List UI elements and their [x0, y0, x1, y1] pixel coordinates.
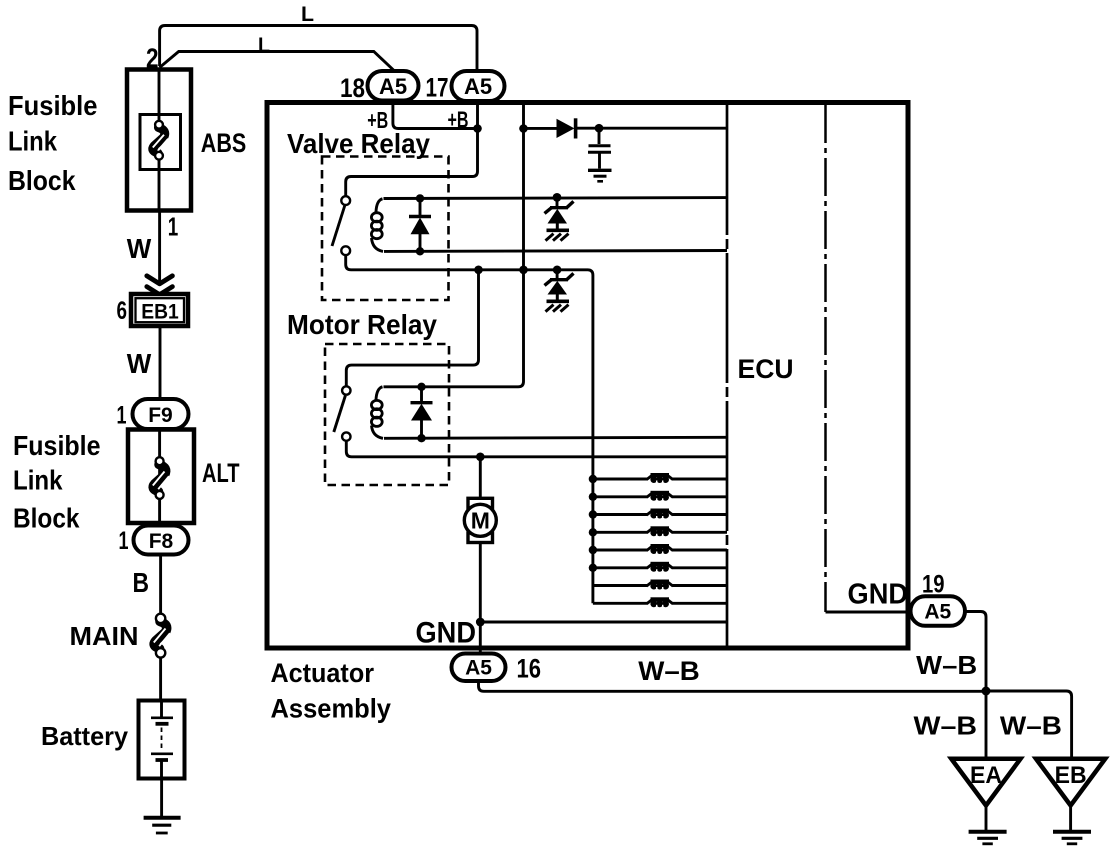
motor relay switch arm: [334, 396, 346, 433]
battery cells: [160, 702, 163, 717]
ground point EB: [1036, 759, 1105, 806]
motor relay flyback diode: [420, 387, 423, 402]
svg-text:Motor Relay: Motor Relay: [287, 309, 437, 340]
diode D1: [557, 119, 575, 138]
svg-text:A5: A5: [464, 74, 492, 99]
svg-text:EB1: EB1: [141, 301, 179, 324]
svg-text:L: L: [258, 34, 270, 57]
junction capacitor node: [595, 124, 604, 133]
wire to pump motor: [479, 457, 482, 498]
valve relay coil top line to ECU: [384, 196, 728, 200]
svg-text:1: 1: [168, 212, 179, 242]
junction W-B node: [982, 687, 991, 696]
wire through ABS fusible link block: [158, 70, 161, 212]
junction coil top: [416, 194, 424, 202]
svg-text:F8: F8: [149, 530, 174, 553]
junction output/zener Z2: [553, 266, 562, 275]
fusible link ALT terminal circles: [156, 457, 164, 465]
connector chevrons: [147, 276, 173, 284]
wire diode to ECU: [577, 127, 727, 130]
svg-text:B: B: [133, 567, 150, 598]
svg-text:+B: +B: [448, 106, 469, 132]
svg-text:A5: A5: [465, 657, 492, 680]
motor relay coil: [376, 387, 383, 400]
svg-text:W–B: W–B: [638, 656, 700, 686]
svg-text:F9: F9: [148, 404, 173, 427]
wire A5-19 to W-B junction: [965, 612, 986, 692]
wire A5-17 down to valve relay: [346, 101, 478, 196]
svg-text:19: 19: [922, 571, 945, 599]
connector F9 oval: [133, 399, 189, 429]
svg-text:16: 16: [517, 654, 542, 684]
wire ABS to EB1: [158, 211, 161, 285]
svg-text:6: 6: [117, 297, 128, 325]
wire diode line: [524, 127, 557, 130]
svg-text:W: W: [127, 348, 152, 379]
junction coil bottom: [416, 247, 424, 255]
valve relay switch arm: [332, 206, 345, 247]
connector A5-16 oval: [452, 654, 506, 682]
svg-text:1: 1: [117, 402, 127, 430]
svg-text:Actuator: Actuator: [271, 658, 375, 688]
svg-text:Link: Link: [8, 126, 57, 157]
pump motor M: [468, 498, 493, 508]
wire motor relay contact feed: [346, 270, 478, 386]
connector EB1 box: [131, 294, 188, 326]
svg-text:GND: GND: [416, 617, 477, 650]
solenoid SOL6: [589, 564, 597, 572]
svg-text:W–B: W–B: [914, 711, 978, 741]
ECU left edge: [726, 105, 729, 646]
svg-text:Valve Relay: Valve Relay: [287, 128, 430, 159]
motor relay dashed box: [325, 344, 449, 485]
junction +B node: [473, 124, 482, 133]
svg-text:17: 17: [426, 73, 449, 103]
svg-text:Fusible: Fusible: [13, 430, 101, 461]
wire A5-18 to +B junction: [393, 101, 478, 129]
svg-text:Fusible: Fusible: [8, 90, 98, 121]
svg-text:W–B: W–B: [916, 650, 977, 680]
fusible link ABS element (S squiggle): [153, 128, 165, 154]
junction motor coil top: [417, 383, 425, 391]
svg-text:ECU: ECU: [738, 354, 794, 384]
svg-text:ABS: ABS: [201, 128, 247, 158]
connector A5-18 oval: [368, 71, 419, 101]
ground point EA: [951, 759, 1020, 806]
wire MAIN to battery: [159, 658, 162, 701]
solenoid SOL3: [589, 510, 597, 518]
wire L (top, pin 2 to connector A5-17): [160, 26, 477, 71]
wire L (second, pin 2 to connector A5-18): [160, 52, 393, 72]
solenoid SOL1: [589, 475, 597, 483]
zener diode Z2 to ground: [556, 270, 559, 278]
solenoid SOL2: [589, 493, 597, 501]
svg-text:A5: A5: [379, 74, 407, 99]
fusible link block ABS outer box: [127, 70, 191, 211]
connector A5-17 oval: [452, 71, 505, 101]
actuator assembly box: [267, 103, 908, 649]
connector A5-19 oval: [911, 596, 966, 626]
fusible link ABS terminal circles: [155, 121, 163, 129]
svg-text:L: L: [301, 3, 314, 26]
svg-text:Link: Link: [13, 465, 63, 496]
valve relay dashed box: [322, 157, 449, 301]
svg-text:EA: EA: [970, 762, 1002, 789]
svg-text:W–B: W–B: [1000, 711, 1062, 741]
svg-text:GND: GND: [848, 579, 909, 611]
svg-text:ALT: ALT: [202, 458, 240, 488]
svg-text:M: M: [471, 508, 490, 534]
fusible link MAIN terminal circles: [156, 614, 165, 623]
valve relay coil: [376, 199, 383, 212]
svg-text:W: W: [127, 233, 152, 264]
zener diode Z1 to ground: [553, 193, 562, 202]
solenoid SOL5: [589, 546, 597, 554]
wire through ALT block: [158, 429, 161, 526]
ground (battery): [144, 816, 181, 820]
junction GND node: [476, 618, 485, 627]
+B rail from box edge down to motor relay coil: [384, 104, 524, 387]
wire F8 to MAIN: [159, 555, 162, 615]
valve relay flyback diode: [419, 198, 422, 216]
fusible link ALT element (S squiggle): [153, 465, 166, 492]
wire GND to ECU: [480, 621, 727, 624]
wire junction to EA: [985, 691, 988, 758]
motor relay switch contacts: [342, 386, 350, 394]
svg-text:MAIN: MAIN: [70, 621, 139, 651]
connector F8 oval: [134, 526, 189, 555]
wire battery to ground: [160, 779, 163, 817]
valve relay output wire to solenoid rail: [346, 255, 593, 603]
svg-text:Block: Block: [13, 503, 80, 534]
junction output/motor contact feed: [474, 266, 483, 275]
ground (capacitor): [588, 169, 612, 172]
svg-text:Assembly: Assembly: [271, 694, 392, 724]
svg-text:1: 1: [119, 527, 129, 555]
junction output/+B rail: [519, 266, 528, 275]
valve relay coil bottom line to ECU: [384, 249, 727, 253]
wire EB1 to F9: [159, 326, 162, 400]
valve relay switch contacts: [341, 196, 350, 205]
fusible link ABS inner box: [140, 115, 181, 170]
solenoid SOL8: [593, 602, 647, 605]
svg-text:18: 18: [340, 73, 365, 103]
wire W-B ground bus: [479, 681, 987, 691]
wire motor to GND node: [479, 543, 482, 655]
junction motor coil bottom: [417, 434, 425, 442]
wire ECU to A5-19: [826, 611, 913, 614]
fusible link block ALT box: [128, 430, 194, 524]
junction motor branch: [476, 453, 485, 462]
ECU inner dash-dot line: [824, 105, 827, 612]
svg-text:Battery: Battery: [41, 721, 129, 751]
motor relay coil bottom line to ECU: [384, 437, 727, 438]
svg-text:A5: A5: [924, 601, 951, 624]
fusible link MAIN element: [154, 622, 167, 649]
battery box: [139, 701, 185, 779]
wire junction to EB: [986, 691, 1072, 758]
junction rail/diode line: [519, 124, 528, 133]
svg-text:Block: Block: [8, 165, 76, 196]
motor relay output wire to ECU: [346, 441, 727, 457]
solenoid SOL4: [589, 528, 597, 536]
capacitor C1: [598, 128, 601, 144]
solenoid SOL7: [593, 584, 647, 587]
svg-text:EB: EB: [1055, 762, 1087, 789]
